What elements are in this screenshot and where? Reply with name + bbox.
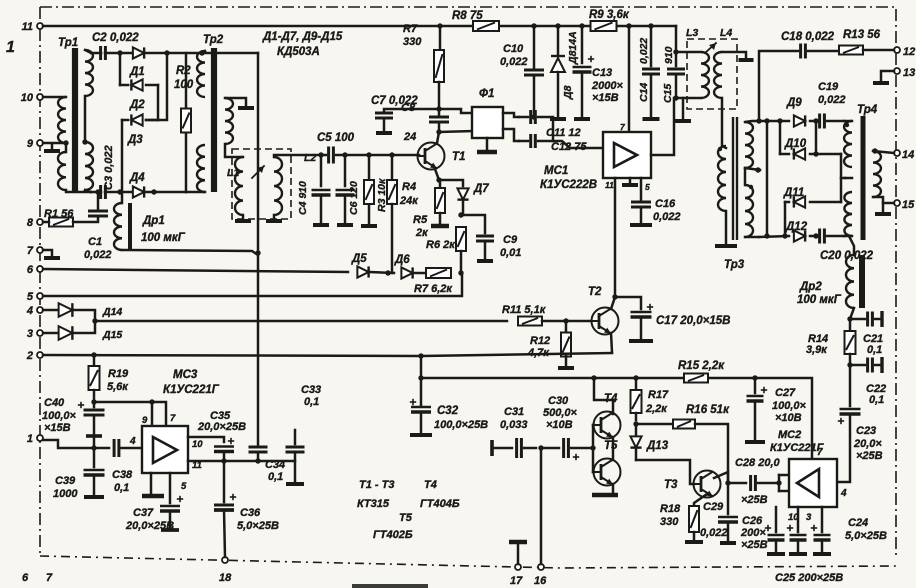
wire Tp3 lw bottom ground <box>715 211 737 246</box>
wire MC3 top pins <box>94 399 166 426</box>
wire row53 <box>91 52 258 55</box>
svg-text:Т5: Т5 <box>604 440 618 452</box>
inductor L1 <box>235 157 243 215</box>
tuning arrow L1-L2 <box>252 166 264 178</box>
Tp3 right winding lower <box>745 168 759 237</box>
node bus-R7 <box>437 23 442 28</box>
wire Tp4 rw bottom to t15 <box>873 197 894 203</box>
label MC3 pin4 <box>129 436 136 447</box>
diode Д14 <box>43 303 122 318</box>
svg-text:Д11: Д11 <box>783 187 804 199</box>
label MC3 <box>163 369 220 396</box>
svg-text:Ф1: Ф1 <box>479 88 494 100</box>
svg-text:1000: 1000 <box>53 488 78 500</box>
svg-text:1: 1 <box>27 433 33 445</box>
svg-text:С6 120: С6 120 <box>348 181 360 215</box>
transformer Tp2 core <box>211 48 217 192</box>
label L2 <box>304 152 316 164</box>
capacitor C29-C26 <box>700 483 738 543</box>
capacitor C39 <box>53 448 105 500</box>
wire Dr1 output row <box>122 250 258 255</box>
node C21 <box>847 316 852 321</box>
svg-text:С34: С34 <box>265 459 285 471</box>
svg-text:11: 11 <box>605 180 614 190</box>
capacitor C20 <box>820 229 874 263</box>
diode Д15 <box>43 326 122 341</box>
right terminal 12 <box>894 46 915 58</box>
wire T4 collector <box>594 378 613 414</box>
wire top supply rail <box>43 26 676 52</box>
wire Ф1 out <box>503 113 519 141</box>
capacitor C3 <box>101 145 115 199</box>
label Tp4 <box>857 104 878 116</box>
node bus378 T4 <box>591 375 596 380</box>
wire t9 line <box>43 142 66 145</box>
resistor R7 <box>403 23 444 109</box>
resistor R1 <box>44 208 74 227</box>
svg-text:R5: R5 <box>413 214 428 226</box>
wire long vertical from row53 <box>257 53 260 447</box>
tuning arrow L3-L4 <box>706 43 716 52</box>
label Tp1 <box>58 37 78 49</box>
capacitor C18 <box>781 31 835 59</box>
capacitor C36 <box>214 461 279 557</box>
node bus378 R17 <box>633 375 638 380</box>
svg-text:С25 200×25В: С25 200×25В <box>775 572 843 584</box>
bottom terminal 18 <box>219 557 232 584</box>
svg-text:КТ315: КТ315 <box>357 498 390 510</box>
svg-text:С8: С8 <box>401 102 416 114</box>
svg-text:L4: L4 <box>720 27 732 39</box>
wire Tp2 rw bottom to L1 <box>225 144 243 157</box>
node C32 bus <box>418 375 423 380</box>
node C35 out <box>221 458 226 463</box>
svg-text:Т2: Т2 <box>588 286 602 298</box>
svg-text:R13 56: R13 56 <box>843 29 881 41</box>
resistor R3 <box>361 155 388 226</box>
resistor R15 <box>678 360 725 383</box>
transformer Tp4 core <box>861 116 866 240</box>
svg-text:R6 2к: R6 2к <box>426 239 456 251</box>
wire t8 R1 C1 <box>43 218 98 222</box>
svg-text:КД503А: КД503А <box>277 46 320 58</box>
resistor R13 <box>808 29 894 55</box>
label L1 <box>227 167 239 179</box>
label Tp2 <box>203 34 224 46</box>
wire ladder v-a <box>119 53 122 85</box>
node bus-C10 <box>531 23 536 28</box>
svg-text:R7 6,2к: R7 6,2к <box>414 283 453 295</box>
capacitor C22 <box>850 357 886 406</box>
svg-text:0,022: 0,022 <box>700 527 728 539</box>
wire d5-d6 <box>370 272 394 273</box>
Tp2 right winding <box>225 98 233 144</box>
svg-text:R11 5,1к: R11 5,1к <box>502 304 547 316</box>
wire bases T4 T5 <box>593 425 594 472</box>
wire R16 row <box>636 423 672 426</box>
wire L4 top <box>722 52 754 60</box>
svg-text:R2: R2 <box>176 65 191 77</box>
node row155-R4 <box>389 152 394 157</box>
label C25 <box>775 572 843 584</box>
svg-text:16: 16 <box>534 575 547 587</box>
svg-text:0,1: 0,1 <box>268 471 283 483</box>
capacitor C15 <box>662 46 691 121</box>
capacitor C14 <box>638 26 660 119</box>
svg-text:×25В: ×25В <box>741 539 768 551</box>
node L3 top <box>673 49 678 54</box>
wire bus to MC1 <box>628 26 631 132</box>
node T4 T5 base <box>590 445 595 450</box>
node rowD v2 <box>764 233 769 238</box>
capacitor C35 <box>197 410 246 461</box>
diode Д9 <box>786 97 805 127</box>
svg-text:R9 3,6к: R9 3,6к <box>589 9 630 21</box>
svg-text:Д1: Д1 <box>129 66 145 78</box>
label MC2 <box>770 429 825 454</box>
label MC2 pin7 <box>817 447 823 458</box>
capacitor C10 <box>500 26 544 115</box>
node R19 C40 <box>91 399 96 404</box>
resistor R9 <box>589 9 630 31</box>
label MC2 pin10 pin3 <box>788 512 812 523</box>
node T1 emitter <box>436 177 441 182</box>
svg-text:С1: С1 <box>88 236 102 248</box>
svg-text:5: 5 <box>181 481 187 492</box>
wire L1 to ground <box>235 215 251 221</box>
svg-text:С18 0,022: С18 0,022 <box>781 31 835 43</box>
diode Д1 <box>129 47 145 78</box>
svg-text:С4 910: С4 910 <box>297 181 309 215</box>
node bus378 C27 <box>752 375 757 380</box>
capacitor C30 <box>541 395 593 460</box>
left terminal circles 11,10,9,8,7,6,5,4,3,2,1 <box>21 21 43 445</box>
Tp3 right winding upper <box>745 121 759 168</box>
svg-text:С36: С36 <box>240 507 261 519</box>
node Tp1 rw mid <box>82 139 87 144</box>
ground MC1 <box>605 122 650 192</box>
op-amp MC2 <box>789 459 837 507</box>
capacitor C21 <box>850 311 883 356</box>
svg-text:7: 7 <box>46 572 53 584</box>
wire L4 bottom <box>722 98 726 148</box>
wire v6 <box>841 154 845 202</box>
node row192-a <box>117 189 122 194</box>
Tp3 center tap <box>745 167 761 172</box>
svg-text:0,1: 0,1 <box>304 396 319 408</box>
svg-text:0,022: 0,022 <box>653 211 681 223</box>
svg-text:R16 51к: R16 51к <box>686 404 730 416</box>
Tp1 right winding upper <box>85 50 93 96</box>
svg-text:20,0×: 20,0× <box>853 438 882 450</box>
wire ladder v-c <box>157 85 160 120</box>
resistor R6 <box>426 227 466 273</box>
transistor T4 <box>594 393 621 439</box>
svg-text:0,1: 0,1 <box>867 344 882 356</box>
node row53-c <box>199 50 204 55</box>
capacitor C32 <box>410 356 488 435</box>
svg-text:С33: С33 <box>301 384 321 396</box>
svg-text:Д5: Д5 <box>351 253 367 265</box>
svg-text:Д2: Д2 <box>129 99 145 111</box>
diode Д11 <box>783 187 841 208</box>
node bus-D8 <box>555 23 560 28</box>
diode Д3 <box>127 114 143 146</box>
svg-text:9: 9 <box>27 138 34 150</box>
bottom corner labels 6 7 <box>22 572 53 584</box>
svg-text:С40: С40 <box>44 397 65 409</box>
svg-text:3,9к: 3,9к <box>806 344 828 356</box>
wire bus5 <box>43 273 462 296</box>
svg-text:8: 8 <box>27 217 34 229</box>
transformer Tp3 core <box>733 117 737 240</box>
svg-text:5,6к: 5,6к <box>107 381 129 393</box>
wire T2 collector <box>611 297 615 309</box>
node rowA v1 <box>756 118 761 123</box>
Tp4 left winding lower <box>844 192 852 236</box>
wire v2 <box>766 121 769 236</box>
wire bus6 <box>43 269 348 272</box>
wire row85 <box>120 84 158 87</box>
ground terminal 7 <box>43 250 60 258</box>
node bus2-C32 <box>418 353 423 358</box>
capacitor C31 <box>500 406 536 458</box>
resistor R18 <box>660 494 707 542</box>
svg-text:100 мкГ: 100 мкГ <box>797 294 842 306</box>
svg-text:0,022: 0,022 <box>818 94 846 106</box>
svg-text:R17: R17 <box>648 389 669 401</box>
svg-text:330: 330 <box>660 516 679 528</box>
node bus-MC1 <box>626 23 631 28</box>
svg-text:5: 5 <box>645 182 650 192</box>
node bus2-R19 <box>91 352 96 357</box>
wire Dr2 to C21 node <box>850 308 854 319</box>
wire t1 row <box>43 440 94 448</box>
resistor R4 <box>387 155 419 273</box>
wire row120 <box>122 119 158 122</box>
capacitor C40 <box>42 397 105 448</box>
wire D13 to T3 base <box>636 460 694 484</box>
svg-text:0,022: 0,022 <box>500 56 528 68</box>
svg-text:0,033: 0,033 <box>500 419 528 431</box>
svg-text:Т1 - Т3: Т1 - Т3 <box>359 479 394 491</box>
svg-text:4: 4 <box>26 305 33 317</box>
svg-text:С12 75: С12 75 <box>551 141 587 153</box>
Tp2 left winding lower <box>186 145 205 192</box>
transistor T2 <box>592 308 619 335</box>
svg-text:Д3: Д3 <box>127 134 143 146</box>
label T2 <box>588 286 602 298</box>
svg-text:7: 7 <box>27 245 34 257</box>
node R12 tap <box>563 318 568 323</box>
node bus-C14 <box>648 23 653 28</box>
svg-text:Д8: Д8 <box>562 85 574 100</box>
diode Д4 <box>129 172 145 198</box>
MC2 bottom caps <box>765 507 831 554</box>
capacitor C7 <box>371 95 439 133</box>
wire to F1 upper pin <box>439 109 473 113</box>
right terminal 13 <box>894 67 915 79</box>
node C1 row192 <box>95 189 100 194</box>
svg-text:×10В: ×10В <box>775 412 802 424</box>
Tp4 right winding <box>873 151 881 197</box>
svg-text:Д10: Д10 <box>784 138 807 150</box>
svg-text:Тр2: Тр2 <box>203 34 224 46</box>
bottom caption remnant <box>352 584 428 588</box>
diode Д13 <box>630 424 668 460</box>
wire v5 <box>782 202 787 239</box>
svg-text:330: 330 <box>403 36 422 48</box>
diode Д2 <box>129 79 145 111</box>
svg-text:3: 3 <box>27 328 33 340</box>
svg-text:С16: С16 <box>655 198 676 210</box>
inductor L3 <box>676 52 709 98</box>
node D7 out <box>458 201 463 218</box>
svg-text:С2 0,022: С2 0,022 <box>92 32 139 44</box>
label Tp3 <box>724 259 745 271</box>
svg-text:5,0×25В: 5,0×25В <box>237 520 279 532</box>
node bus6-right <box>458 270 463 275</box>
capacitor C12 <box>519 134 603 153</box>
svg-text:Тр4: Тр4 <box>857 104 878 116</box>
svg-text:С13: С13 <box>592 67 612 79</box>
transistor T5 <box>594 440 621 486</box>
svg-text:Д9: Д9 <box>786 97 802 109</box>
svg-text:Д12: Д12 <box>785 221 808 233</box>
wire Tp1 rw mid <box>84 96 87 142</box>
wire MC1 pin to T2 <box>614 178 617 297</box>
diode Д12 <box>785 221 808 242</box>
svg-text:7: 7 <box>817 447 823 458</box>
svg-text:Тр1: Тр1 <box>58 37 78 49</box>
label C26 <box>740 515 768 551</box>
wire row192 <box>91 191 186 194</box>
svg-text:Т1: Т1 <box>452 151 465 163</box>
svg-text:Д15: Д15 <box>102 329 122 341</box>
wire t10 to Tp1 <box>43 96 66 99</box>
node row192-b <box>151 189 156 194</box>
node rowA C19 <box>813 118 818 123</box>
svg-text:С37: С37 <box>133 507 154 519</box>
wire v4 <box>813 121 818 157</box>
node row53-b <box>164 50 169 55</box>
svg-text:С19: С19 <box>818 81 839 93</box>
resistor R19 <box>89 355 130 402</box>
capacitor C16 <box>630 178 681 225</box>
wire ladder v-b <box>121 120 124 192</box>
node rowA v2 <box>764 118 769 123</box>
capacitor C23 <box>837 365 883 482</box>
svg-text:L3: L3 <box>686 27 698 39</box>
svg-text:12: 12 <box>903 46 915 58</box>
svg-text:3: 3 <box>806 512 812 523</box>
resistor R2 <box>174 53 194 192</box>
svg-text:10: 10 <box>192 439 203 450</box>
capacitor C8 <box>401 102 473 143</box>
Tp1 left winding lower <box>58 143 91 192</box>
svg-text:14: 14 <box>902 149 914 161</box>
resistor R8 <box>452 10 499 31</box>
node t1 C39 <box>91 445 96 450</box>
ground MC3 pin8 <box>142 473 164 496</box>
label MC2 pin4 <box>840 488 847 499</box>
resistor R16 <box>673 404 730 483</box>
wire T1 emitter to D7 <box>439 180 463 186</box>
svg-text:Д814А: Д814А <box>567 31 579 65</box>
Tp2 left winding upper <box>197 51 205 97</box>
wire R11 feed line <box>95 320 507 323</box>
svg-text:0,1: 0,1 <box>114 482 129 494</box>
svg-text:6: 6 <box>27 264 34 276</box>
inductor Dr2 choke <box>846 236 862 308</box>
svg-text:×25В: ×25В <box>856 450 883 462</box>
resistor R12 <box>527 321 574 368</box>
label L4 <box>720 27 732 39</box>
svg-text:К1УС222В: К1УС222В <box>540 179 597 191</box>
svg-text:Др1: Др1 <box>142 215 165 227</box>
coupled coils dashed box <box>232 149 291 219</box>
svg-text:2,2к: 2,2к <box>645 403 668 415</box>
Tp4 left winding mid tap <box>845 177 852 180</box>
wire MC1 out <box>651 98 674 155</box>
svg-text:Др2: Др2 <box>799 281 822 293</box>
svg-text:С14: С14 <box>638 83 650 102</box>
capacitor C1 <box>84 192 112 261</box>
resistor R7-6k2 <box>414 268 453 295</box>
capacitor C13 <box>573 26 624 119</box>
svg-text:С29: С29 <box>703 501 724 513</box>
ground t13 <box>873 71 894 83</box>
svg-text:×15В: ×15В <box>44 422 71 434</box>
svg-text:2к: 2к <box>415 227 429 239</box>
node row155-C6 <box>342 152 347 157</box>
svg-text:С39: С39 <box>55 475 76 487</box>
svg-text:×10В: ×10В <box>546 419 573 431</box>
capacitor C9 <box>461 215 521 261</box>
svg-text:0,022: 0,022 <box>84 249 112 261</box>
wire d14-d15 join <box>74 310 95 333</box>
node T3 collector <box>714 472 731 486</box>
node T2 collector <box>612 294 617 299</box>
svg-text:20,0×25В: 20,0×25В <box>125 520 174 532</box>
wire L2 top to base row <box>274 155 321 157</box>
capacitor C4 <box>297 155 331 225</box>
svg-text:Д6: Д6 <box>394 254 410 266</box>
svg-text:R1 56: R1 56 <box>44 208 74 220</box>
node C31 C30 <box>538 445 543 450</box>
diode Д5 <box>351 253 369 278</box>
svg-text:18: 18 <box>219 572 232 584</box>
svg-text:С32: С32 <box>437 405 459 417</box>
zener Д8 Д814А <box>550 26 579 119</box>
node bus6-R4 <box>385 270 390 275</box>
ground at terminal 9 <box>44 144 60 151</box>
svg-text:R8 75: R8 75 <box>452 10 483 22</box>
wire L2 to ground <box>266 215 282 221</box>
svg-text:200×: 200× <box>740 527 766 539</box>
svg-text:11: 11 <box>22 21 33 33</box>
svg-text:9: 9 <box>142 415 148 426</box>
capacitor C28 <box>728 457 789 506</box>
svg-text:20,0×25В: 20,0×25В <box>197 421 246 433</box>
page number 1 <box>6 39 15 56</box>
svg-text:0,1: 0,1 <box>869 394 884 406</box>
node Dr1-vert <box>255 250 260 255</box>
svg-text:С15: С15 <box>662 84 674 103</box>
svg-text:Тр3: Тр3 <box>724 259 745 271</box>
svg-text:R4: R4 <box>402 181 416 193</box>
transformer Tp1 core <box>72 48 78 192</box>
